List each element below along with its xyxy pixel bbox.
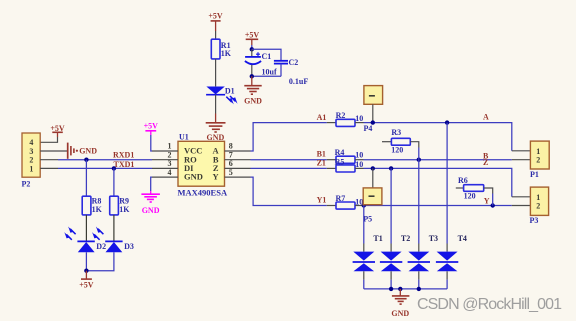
wire R6 down to Y row (492, 194, 494, 206)
svg-text:CSDN @RockHill_001: CSDN @RockHill_001 (417, 296, 562, 313)
junction C1 top (250, 47, 254, 51)
power +5V over R1 (208, 11, 223, 39)
resistor R5 (327, 157, 364, 172)
ground GND magenta at U1 (141, 191, 160, 215)
svg-text:+5V: +5V (79, 280, 94, 289)
Z to P3 pin 1 stub (512, 196, 531, 198)
B to P1 pin 2 stub (512, 159, 531, 161)
TVS T1 (353, 206, 383, 289)
svg-text:1: 1 (168, 142, 172, 151)
svg-text:RXD1: RXD1 (113, 151, 134, 160)
svg-text:R4: R4 (335, 148, 345, 157)
wire A row (364, 123, 512, 151)
svg-text:A: A (483, 112, 489, 121)
resistor R2 (327, 111, 364, 127)
resistor R7 (327, 194, 364, 209)
svg-text:TXD1: TXD1 (114, 160, 135, 169)
resistor R9 (110, 196, 131, 215)
svg-text:P1: P1 (530, 170, 539, 179)
svg-text:1: 1 (536, 193, 540, 202)
svg-text:R8: R8 (92, 196, 102, 205)
TVS T4 (436, 123, 467, 289)
svg-text:Y: Y (212, 172, 218, 182)
wire D1 to GND (215, 95, 217, 114)
svg-text:P4: P4 (364, 124, 373, 133)
wire R3 down to B row (418, 148, 420, 160)
svg-text:A1: A1 (317, 113, 327, 122)
svg-text:GND: GND (79, 147, 97, 156)
resistor R3 (382, 128, 419, 154)
junction T4 on A row (445, 120, 449, 124)
svg-text:3: 3 (168, 159, 172, 168)
resistor R1 (211, 39, 232, 59)
svg-text:10: 10 (355, 151, 363, 160)
wire U1 pin 4 to GND (151, 177, 152, 191)
LED D2 (64, 227, 106, 253)
wire to C2 (252, 49, 281, 60)
TVS T3 (408, 160, 438, 289)
junction on RXD1 for R8 (84, 158, 88, 162)
svg-text:2: 2 (168, 150, 172, 159)
svg-text:T4: T4 (458, 234, 467, 243)
svg-text:120: 120 (464, 192, 476, 201)
resistor R4 (327, 148, 364, 163)
svg-text:5: 5 (229, 168, 233, 177)
connector P5 (363, 168, 382, 223)
svg-text:D2: D2 (96, 242, 106, 251)
junction D2/D3 join (84, 269, 88, 273)
wire RXD1 down to R8 (85, 160, 87, 197)
TVS T2 (380, 168, 410, 289)
wire R9 to D3 (113, 215, 115, 241)
LED D3 (92, 227, 134, 253)
earth ground GND at P2 pin 3 (68, 143, 98, 159)
svg-text:D3: D3 (124, 242, 134, 251)
power +5V magenta at U1 VCC (144, 122, 159, 135)
svg-text:R3: R3 (391, 128, 401, 137)
resistor R6 (456, 176, 493, 201)
P2 pin 2 stub (40, 159, 58, 161)
U1 left pins (152, 142, 178, 177)
svg-text:Y1: Y1 (317, 196, 327, 205)
junction T2 on rail (389, 287, 393, 291)
svg-text:Y: Y (484, 196, 490, 205)
svg-text:P3: P3 (530, 216, 539, 225)
svg-text:T3: T3 (429, 234, 438, 243)
svg-text:2: 2 (536, 156, 540, 165)
svg-text:GND: GND (244, 96, 262, 105)
svg-text:R2: R2 (336, 111, 346, 120)
LED D1 (206, 87, 237, 105)
junction GND stem on rail (398, 287, 402, 291)
wire Y row (364, 205, 512, 207)
wire Z row from pin 6 (251, 167, 327, 169)
junction P4 on A row (371, 120, 375, 124)
svg-text:C1: C1 (262, 52, 272, 61)
svg-text:7: 7 (229, 150, 233, 159)
svg-text:10: 10 (355, 114, 363, 123)
svg-text:3: 3 (29, 147, 33, 156)
wire A1 from pin 8 (251, 123, 327, 151)
wire ground rail (364, 288, 447, 290)
svg-text:D1: D1 (225, 87, 235, 96)
svg-text:R5: R5 (335, 157, 345, 166)
svg-text:GND: GND (391, 309, 409, 318)
junction on TXD1 for R9 (112, 166, 116, 170)
wire B row from pin 7 (251, 159, 327, 161)
svg-text:MAX490ESA: MAX490ESA (178, 187, 228, 197)
svg-text:GND: GND (184, 172, 203, 182)
capacitor C1 (245, 49, 277, 76)
svg-text:B1: B1 (317, 150, 326, 159)
wire net RXD1 (58, 159, 152, 161)
svg-text:T1: T1 (373, 234, 382, 243)
connector P2 (22, 133, 41, 188)
svg-text:U1: U1 (179, 133, 189, 142)
svg-text:1K: 1K (92, 205, 103, 214)
svg-text:10: 10 (355, 160, 363, 169)
svg-text:1: 1 (29, 164, 33, 173)
junction C1 bottom (250, 74, 254, 78)
wire R1 to D1 (215, 59, 217, 87)
svg-text:Z1: Z1 (317, 158, 326, 167)
wire R8 to D2 (85, 215, 87, 241)
wire D2 down (85, 252, 87, 270)
svg-text:1: 1 (536, 147, 540, 156)
capacitor C2 (274, 58, 308, 86)
svg-text:8: 8 (229, 142, 233, 151)
junction R6 on Y row (491, 203, 495, 207)
svg-text:P2: P2 (22, 179, 31, 188)
Y to P3 pin 2 stub (512, 205, 531, 207)
junction T2 on Z row (389, 166, 393, 170)
wire Y row from pin 5 (251, 177, 327, 205)
svg-text:10uf: 10uf (262, 68, 277, 77)
wire C2 return to C1 bottom (252, 75, 281, 77)
wire Z row (364, 168, 512, 196)
svg-text:2: 2 (29, 156, 33, 165)
U1 right pins (225, 142, 251, 177)
power +5V over C1 (245, 30, 260, 49)
connector P1 (530, 141, 549, 179)
wire net TXD1 (58, 167, 152, 169)
svg-text:R9: R9 (119, 196, 129, 205)
junction T1 on Y row (362, 203, 366, 207)
svg-text:120: 120 (391, 146, 403, 155)
svg-text:T2: T2 (401, 234, 410, 243)
svg-text:Z: Z (483, 158, 488, 167)
connector P3 (530, 187, 549, 225)
wire D3 down and left (86, 252, 114, 270)
svg-text:4: 4 (29, 138, 33, 147)
U1 pin 8 A to P1 pin 1 stub (512, 150, 531, 152)
svg-text:4: 4 (168, 168, 172, 177)
svg-text:GND: GND (142, 206, 160, 215)
svg-text:P5: P5 (363, 215, 372, 224)
junction T3 on rail (417, 287, 421, 291)
svg-text:R7: R7 (336, 194, 346, 203)
svg-text:+5V: +5V (144, 122, 159, 131)
P2 pin 1 stub (40, 167, 58, 169)
ground GND under D1 (206, 123, 226, 142)
connector P4 (364, 86, 383, 133)
svg-text:6: 6 (229, 159, 233, 168)
svg-text:R6: R6 (458, 176, 468, 185)
wire +5V to U1 pin 1 (151, 135, 152, 151)
IC U1 MAX490ESA (178, 133, 228, 198)
power +5V over P2 (40, 124, 65, 142)
wire B row (364, 159, 512, 161)
ground GND bottom (391, 289, 409, 318)
svg-text:1K: 1K (119, 205, 130, 214)
resistor R8 (82, 196, 102, 215)
svg-text:0.1uF: 0.1uF (289, 77, 308, 86)
wire TXD1 down to R9 (113, 168, 115, 196)
svg-text:C2: C2 (289, 58, 299, 67)
svg-text:2: 2 (536, 202, 540, 211)
svg-text:+5V: +5V (208, 11, 223, 20)
junction P5 on Z row (371, 166, 375, 170)
ground GND under C1 (244, 76, 262, 105)
svg-text:1K: 1K (221, 49, 232, 58)
pin 3 wire to earth ground (40, 150, 67, 152)
junction T3 on B row (417, 158, 421, 162)
svg-text:+5V: +5V (245, 30, 260, 39)
power +5V bottom (79, 271, 94, 290)
